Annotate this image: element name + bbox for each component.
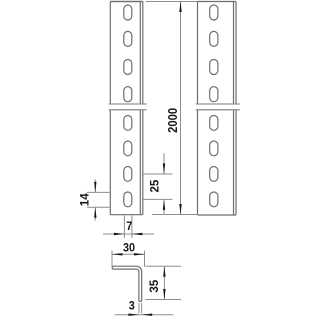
svg-text:7: 7 (126, 220, 132, 233)
svg-text:25: 25 (147, 179, 161, 192)
svg-text:3: 3 (129, 300, 135, 313)
svg-text:14: 14 (77, 193, 91, 206)
svg-text:2000: 2000 (165, 108, 180, 133)
svg-text:35: 35 (147, 279, 161, 292)
svg-text:30: 30 (123, 242, 135, 255)
